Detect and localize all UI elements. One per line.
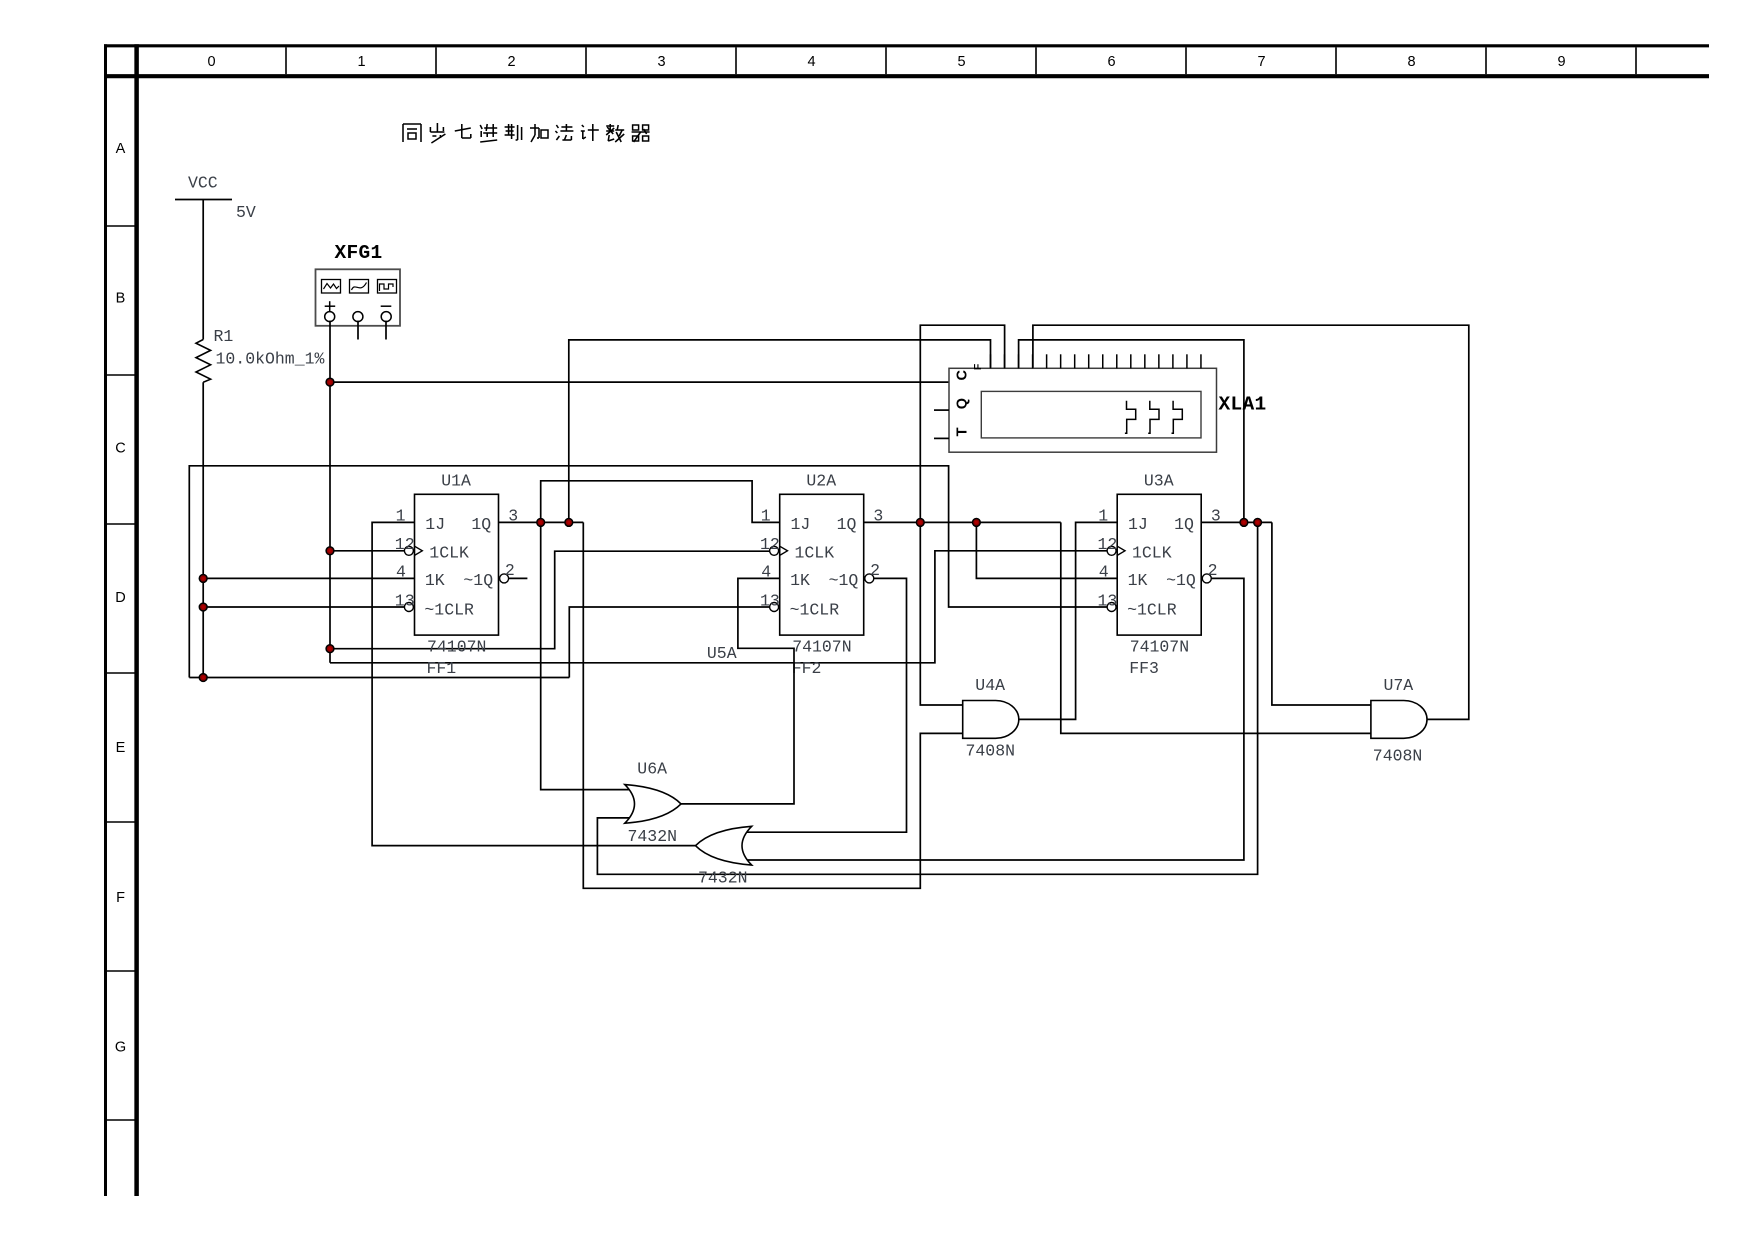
svg-text:1: 1 bbox=[357, 54, 365, 70]
svg-text:~1Q: ~1Q bbox=[1166, 571, 1196, 590]
svg-text:1J: 1J bbox=[425, 515, 445, 534]
svg-text:U2A: U2A bbox=[806, 471, 836, 490]
wire clock down past U1A bbox=[329, 382, 331, 663]
svg-text:1CLK: 1CLK bbox=[1132, 544, 1172, 563]
or-gate U5A (mirrored) bbox=[696, 826, 752, 865]
svg-text:XLA1: XLA1 bbox=[1219, 393, 1267, 415]
svg-text:E: E bbox=[116, 740, 126, 756]
svg-text:U3A: U3A bbox=[1144, 471, 1174, 490]
pin labels U1A bbox=[424, 515, 493, 619]
svg-text:~1Q: ~1Q bbox=[463, 571, 493, 590]
svg-text:XFG1: XFG1 bbox=[335, 242, 383, 264]
svg-text:2: 2 bbox=[1208, 561, 1218, 580]
pin numbers U2A bbox=[760, 506, 883, 610]
svg-text:A: A bbox=[116, 141, 126, 157]
svg-text:FF2: FF2 bbox=[792, 659, 822, 678]
label XFG1 bbox=[335, 242, 383, 264]
svg-text:9: 9 bbox=[1557, 54, 1565, 70]
wire clock under U1A to U2A CLK bbox=[330, 551, 770, 649]
junction U3A 1Q / XLA1 branch bbox=[1240, 519, 1248, 527]
svg-text:2: 2 bbox=[505, 561, 515, 580]
pin numbers U3A bbox=[1098, 506, 1221, 610]
svg-text:C: C bbox=[115, 440, 125, 456]
label R1 bbox=[214, 327, 234, 346]
wire U3A ~1Q to U5A input B bbox=[745, 578, 1244, 860]
column numbers 0-9 bbox=[207, 54, 1565, 70]
svg-text:2: 2 bbox=[507, 54, 515, 70]
svg-text:U4A: U4A bbox=[975, 676, 1005, 695]
junction clock at XLA1 branch bbox=[326, 378, 334, 386]
wire U3A 1Q to XLA1 pin 3 bbox=[1019, 340, 1244, 523]
svg-text:U1A: U1A bbox=[441, 471, 471, 490]
junction rail at U1A 1K bbox=[199, 575, 207, 583]
wire U3A 1Q to U7A input A bbox=[1272, 522, 1371, 705]
label XLA1 bbox=[1219, 393, 1267, 415]
value 74107N U2A bbox=[792, 638, 851, 657]
svg-text:F: F bbox=[972, 363, 984, 370]
wire XFG1 minus stub bbox=[385, 321, 387, 340]
svg-text:VCC: VCC bbox=[188, 174, 218, 193]
wire U3A 1Q output row bbox=[1202, 521, 1272, 523]
wire VCC rail left loop bbox=[189, 466, 1107, 678]
wire U6A output to U2A 1K pin 4 bbox=[681, 578, 794, 804]
svg-text:~1CLR: ~1CLR bbox=[1127, 600, 1177, 619]
value 7408N U7A bbox=[1373, 746, 1423, 765]
svg-text:1K: 1K bbox=[425, 571, 445, 590]
value 7408N U4A bbox=[966, 741, 1016, 760]
label U3A bbox=[1144, 471, 1174, 490]
value 74107N U1A bbox=[427, 638, 486, 657]
svg-text:74107N: 74107N bbox=[427, 638, 486, 657]
svg-text:FF3: FF3 bbox=[1129, 659, 1159, 678]
pin labels U2A bbox=[790, 515, 859, 619]
wire U2A 1Q to U4A input A bbox=[920, 522, 962, 705]
and-gate U4A bbox=[963, 701, 1019, 739]
svg-text:G: G bbox=[115, 1040, 126, 1056]
pin numbers U1A bbox=[395, 506, 518, 610]
svg-text:12: 12 bbox=[395, 535, 415, 554]
value 7432N U6A bbox=[628, 827, 678, 846]
resistor R1 bbox=[196, 340, 211, 383]
wire U5A output to U1A 1J pin 1 bbox=[372, 522, 695, 845]
label U2A bbox=[806, 471, 836, 490]
row letters A-G bbox=[115, 141, 126, 1056]
svg-text:B: B bbox=[116, 291, 126, 307]
junction clock at U1A CLK bbox=[326, 547, 334, 555]
label U1A bbox=[441, 471, 471, 490]
svg-text:1K: 1K bbox=[1128, 571, 1148, 590]
svg-text:4: 4 bbox=[807, 54, 815, 70]
wire U7A output to XLA1 pin 4 bbox=[1033, 325, 1469, 719]
wire U1A 1Q to XLA1 pin 1 bbox=[569, 340, 991, 523]
label U6A bbox=[637, 760, 667, 779]
junction clock at U2A branch bbox=[326, 645, 334, 653]
svg-text:13: 13 bbox=[395, 591, 415, 610]
wire U1A ~1Q stub pin 2 bbox=[509, 577, 528, 579]
label U4A bbox=[975, 676, 1005, 695]
svg-text:T: T bbox=[955, 427, 971, 436]
svg-text:FF1: FF1 bbox=[427, 659, 457, 678]
wire clock under U2A to U3A CLK bbox=[330, 551, 1108, 663]
svg-text:8: 8 bbox=[1407, 54, 1415, 70]
label FF2 bbox=[792, 659, 822, 678]
svg-text:13: 13 bbox=[760, 591, 780, 610]
wire clock to XLA1 C input bbox=[330, 381, 949, 383]
label FF3 bbox=[1129, 659, 1159, 678]
svg-text:F: F bbox=[116, 890, 125, 906]
svg-text:7: 7 bbox=[1257, 54, 1265, 70]
junction U1A 1Q / XLA1 branch bbox=[565, 519, 573, 527]
svg-text:3: 3 bbox=[657, 54, 665, 70]
wire U4A output to U3A 1J pin 1 bbox=[1019, 522, 1117, 719]
svg-text:1J: 1J bbox=[1128, 515, 1148, 534]
svg-text:4: 4 bbox=[396, 562, 406, 581]
svg-text:5V: 5V bbox=[236, 203, 256, 222]
label U7A bbox=[1384, 676, 1414, 695]
svg-text:7408N: 7408N bbox=[966, 741, 1016, 760]
svg-text:1CLK: 1CLK bbox=[429, 544, 469, 563]
svg-text:10.0kOhm_1%: 10.0kOhm_1% bbox=[216, 350, 325, 369]
svg-text:7432N: 7432N bbox=[628, 827, 678, 846]
svg-text:6: 6 bbox=[1107, 54, 1115, 70]
svg-text:U6A: U6A bbox=[637, 760, 667, 779]
svg-text:1CLK: 1CLK bbox=[795, 544, 835, 563]
junction U3A 1Q / U6A branch bbox=[1254, 519, 1262, 527]
wire XFG1 plus output down bbox=[329, 321, 331, 383]
wire U2A 1Q to U3A 1K pin 4 bbox=[976, 522, 1117, 578]
svg-text:Q: Q bbox=[955, 398, 971, 409]
wire U2A 1Q to XLA1 pin 2 bbox=[920, 325, 1004, 522]
wire VCC to R1 bbox=[202, 200, 204, 340]
wire XFG1 common stub bbox=[357, 321, 359, 340]
wire U1A 1Q to U6A input A bbox=[541, 522, 632, 789]
and-gate U7A bbox=[1371, 701, 1427, 739]
pin labels U3A bbox=[1127, 515, 1196, 619]
wire rail to U1A 1K pin 4 bbox=[203, 577, 414, 579]
wire U2A 1Q output row bbox=[864, 521, 1061, 523]
junction rail at R1 bbox=[199, 674, 207, 682]
svg-text:U7A: U7A bbox=[1384, 676, 1414, 695]
svg-text:7408N: 7408N bbox=[1373, 746, 1423, 765]
or-gate U6A bbox=[625, 785, 681, 824]
value 74107N U3A bbox=[1130, 638, 1189, 657]
svg-text:~1CLR: ~1CLR bbox=[424, 600, 474, 619]
svg-text:0: 0 bbox=[207, 54, 215, 70]
junction U1A 1Q / U6A branch bbox=[537, 519, 545, 527]
svg-text:1Q: 1Q bbox=[471, 515, 491, 534]
svg-text:1Q: 1Q bbox=[837, 515, 857, 534]
wire clock to U1A CLK pin 12 bbox=[330, 550, 404, 552]
wire U1A 1Q to U4A input B bbox=[583, 522, 962, 888]
svg-text:5: 5 bbox=[957, 54, 965, 70]
wire U1A 1Q to U2A 1J pin 1 bbox=[541, 481, 780, 523]
flip-flop U1A 74107N FF1 bbox=[404, 494, 508, 635]
wire U1A 1Q output row bbox=[499, 521, 584, 523]
junction rail at U1A CLR bbox=[199, 603, 207, 611]
value 7432N U5A bbox=[698, 868, 748, 887]
svg-text:U5A: U5A bbox=[707, 644, 737, 663]
svg-text:7432N: 7432N bbox=[698, 868, 748, 887]
label U5A bbox=[707, 644, 737, 663]
wire U3A 1Q to U6A input B bbox=[597, 522, 1257, 874]
wire rail to U2A CLR bbox=[569, 607, 770, 678]
svg-text:C: C bbox=[955, 370, 971, 381]
svg-text:12: 12 bbox=[760, 535, 780, 554]
flip-flop U3A 74107N FF3 bbox=[1107, 494, 1211, 635]
svg-text:R1: R1 bbox=[214, 327, 234, 346]
power VCC 5V bbox=[175, 174, 256, 223]
title text 同步七进制加法计数器 (drawn) bbox=[403, 123, 650, 143]
junction U2A 1Q / U3A 1K branch bbox=[973, 519, 981, 527]
wire U2A 1Q net to U7A input B bbox=[1061, 522, 1371, 733]
svg-text:1Q: 1Q bbox=[1174, 515, 1194, 534]
svg-text:12: 12 bbox=[1098, 535, 1118, 554]
svg-text:D: D bbox=[115, 590, 125, 606]
svg-text:74107N: 74107N bbox=[1130, 638, 1189, 657]
svg-text:74107N: 74107N bbox=[792, 638, 851, 657]
wire VCC rail bottom bbox=[189, 677, 569, 679]
function generator XFG1 bbox=[316, 269, 401, 326]
svg-text:2: 2 bbox=[870, 561, 880, 580]
wire R1 down to CLR rail bbox=[202, 382, 204, 677]
logic analyzer XLA1 bbox=[934, 354, 1217, 452]
svg-text:1J: 1J bbox=[791, 515, 811, 534]
wire U2A ~1Q to U5A input A bbox=[745, 578, 907, 832]
wire rail to U1A CLR pin 13 bbox=[203, 606, 404, 608]
value 10.0kOhm_1% bbox=[216, 350, 325, 369]
svg-text:~1Q: ~1Q bbox=[829, 571, 859, 590]
svg-text:~1CLR: ~1CLR bbox=[790, 600, 840, 619]
junction U2A 1Q / XLA1+U4A branch bbox=[916, 519, 924, 527]
svg-text:1K: 1K bbox=[790, 571, 810, 590]
flip-flop U2A 74107N FF2 bbox=[770, 494, 874, 635]
label FF1 bbox=[427, 659, 457, 678]
svg-text:13: 13 bbox=[1098, 591, 1118, 610]
